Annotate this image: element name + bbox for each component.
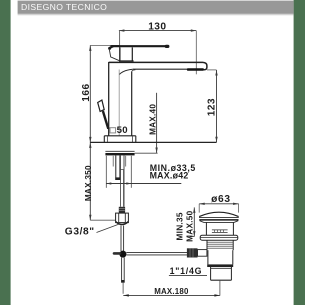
svg-text:50: 50 <box>117 125 128 136</box>
166 top extension line <box>90 44 119 46</box>
threaded shank <box>115 156 117 180</box>
drain cap dome <box>199 212 238 216</box>
tailpipe <box>210 267 212 280</box>
supply hose lines <box>120 156 122 170</box>
faucet body top / spout top outline <box>109 62 207 69</box>
svg-text:1"1/4G: 1"1/4G <box>170 266 203 276</box>
base plate <box>104 135 136 137</box>
header bar <box>18 1 294 14</box>
1"1/4G underline leader <box>169 274 207 276</box>
MIN.35/MAX.50 bracket <box>193 207 195 236</box>
pop-up rod upper <box>120 226 122 252</box>
lever back tip <box>108 47 111 50</box>
svg-text:166: 166 <box>81 83 92 101</box>
dim MAX.40 line <box>156 93 158 153</box>
MAX.350 bottom extension to hose nut <box>90 219 115 221</box>
washer plane extension to MAX.40 <box>135 152 158 154</box>
svg-text:ø63: ø63 <box>211 194 231 205</box>
cap rim <box>199 217 239 219</box>
lever top bar <box>111 45 168 47</box>
rod end extension <box>122 283 124 294</box>
neck slot band <box>212 229 228 231</box>
threaded body <box>206 240 208 250</box>
right green band <box>294 0 305 305</box>
dim 130 right arrow <box>191 29 197 31</box>
hose thread adapter <box>119 207 125 213</box>
drain body tube <box>207 250 209 264</box>
dim 130 left arrow <box>119 29 125 31</box>
washer top line <box>105 150 134 152</box>
dim 130 left extension line <box>119 31 121 63</box>
lever base block <box>119 47 121 61</box>
svg-text:MAX.50: MAX.50 <box>185 210 194 242</box>
spout underside chamfer <box>119 69 132 74</box>
svg-text:123: 123 <box>207 98 218 116</box>
MAX.350 bottom arrow <box>89 215 91 221</box>
dark ring <box>207 264 233 267</box>
rod left stub <box>114 252 120 255</box>
svg-text:MIN.35: MIN.35 <box>176 212 185 240</box>
label square50 <box>110 128 116 133</box>
MAX.40 bottom arrow <box>155 148 157 154</box>
drain flange <box>200 235 238 240</box>
dim diam63 line <box>199 203 238 205</box>
tilted lever shaft <box>103 111 108 129</box>
MAX.180 right extension <box>219 281 221 296</box>
svg-text:DISEGNO TECNICO: DISEGNO TECNICO <box>21 2 107 12</box>
lever bar end bulb <box>165 45 170 48</box>
horizontal rod to drain <box>126 252 187 254</box>
inner corner arc <box>132 70 136 72</box>
166 top arrow <box>89 45 91 51</box>
G3/8 nut <box>116 213 129 223</box>
svg-text:130: 130 <box>148 22 166 33</box>
svg-text:G3/8": G3/8" <box>65 226 95 237</box>
aerator <box>187 68 204 71</box>
tilted lever head <box>98 100 105 111</box>
ball joint <box>119 251 126 258</box>
body left edge <box>108 62 110 136</box>
svg-text:MAX.350: MAX.350 <box>84 165 93 201</box>
svg-text:MAX.180: MAX.180 <box>154 287 189 296</box>
G3/8 leader line <box>97 224 120 233</box>
dim 123 line <box>216 70 218 142</box>
shank end cap <box>115 177 120 180</box>
hole diameter extension lines <box>105 156 107 188</box>
cap skirt <box>200 221 239 223</box>
hole diameter dim line <box>106 183 181 185</box>
body right edge <box>131 72 133 136</box>
body inner edge line <box>118 70 120 136</box>
dim MAX.180 line <box>123 294 220 296</box>
connector mid piece <box>198 250 207 257</box>
spout underside line <box>133 68 187 70</box>
svg-text:MAX.40: MAX.40 <box>149 104 158 135</box>
dim 130 line <box>119 30 196 32</box>
166 bottom arrow at deck <box>89 137 91 143</box>
123 bottom arrow <box>215 137 217 143</box>
left green band <box>0 0 11 305</box>
MAX.350 top arrow at deck <box>89 142 91 148</box>
dim 166 / MAX.350 vertical line <box>89 45 91 220</box>
deck line <box>90 141 216 143</box>
dim 123 top stub from spout <box>207 69 217 71</box>
nut dome bottom <box>116 221 129 226</box>
lever back wedge outline <box>109 50 120 61</box>
rod connector nub <box>187 248 198 257</box>
drain neck <box>205 222 207 235</box>
svg-text:MAX.ø42: MAX.ø42 <box>150 171 189 181</box>
rod lower <box>121 257 123 282</box>
123 top arrow <box>215 70 217 76</box>
dim 130 right extension line <box>195 31 197 75</box>
washer dark bar <box>105 153 134 155</box>
